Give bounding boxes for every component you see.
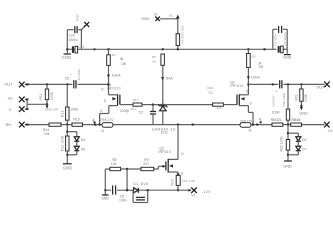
transistor Q2 IRF610 <box>230 79 252 105</box>
right OUT line <box>247 83 278 85</box>
svg-text:R12 100K: R12 100K <box>60 135 64 151</box>
svg-text:1000u: 1000u <box>68 38 78 42</box>
svg-text:3k: 3k <box>152 59 156 63</box>
svg-text:B: B <box>259 118 262 122</box>
resistor R1 3k 1W (left) <box>107 48 127 66</box>
svg-text:OUT: OUT <box>4 83 13 87</box>
svg-text:GND_HR: GND_HR <box>45 108 59 112</box>
svg-text:R10: R10 <box>171 179 175 185</box>
svg-text:V1: V1 <box>154 13 158 17</box>
svg-text:1W: 1W <box>258 65 264 69</box>
svg-text:IRF610: IRF610 <box>107 87 120 91</box>
connector GD <box>8 97 29 103</box>
resistor R4 0R27 5W <box>176 19 184 51</box>
capacitor C5 output coupling (left) <box>65 68 110 88</box>
resistor R19 221 (right) <box>271 118 283 126</box>
svg-text:R15: R15 <box>73 117 79 121</box>
svg-text:+50V: +50V <box>140 17 149 21</box>
svg-text:R22 100K: R22 100K <box>280 136 284 152</box>
wire gate bias node <box>142 103 213 105</box>
top-right decoupling block loop <box>273 29 287 53</box>
capacitor C6 100n <box>113 185 127 202</box>
svg-text:221: 221 <box>217 106 222 110</box>
resistor R21 100K (right, out to gnd) <box>294 83 308 115</box>
resistor R2 3k 1W (right) <box>247 48 266 69</box>
diode D6 <box>288 133 306 142</box>
svg-text:100K: 100K <box>50 91 54 100</box>
svg-text:R4 0R27 5W: R4 0R27 5W <box>180 26 184 44</box>
svg-text:221: 221 <box>131 107 136 111</box>
svg-text:R17: R17 <box>133 98 139 102</box>
resistor R20 100K (right feedback) <box>272 83 290 124</box>
svg-text:R20 100K: R20 100K <box>282 92 286 107</box>
svg-text:R18 10k: R18 10k <box>291 118 300 122</box>
svg-text:100K: 100K <box>272 110 281 114</box>
diode D5 <box>67 141 85 155</box>
svg-text:OUT: OUT <box>316 86 325 90</box>
net arrow GND_HR <box>45 105 59 111</box>
svg-text:B1: B1 <box>169 14 173 18</box>
JFET J1 2SK170 (box style) <box>100 118 114 133</box>
connector RH <box>6 122 29 128</box>
diode D4 <box>67 132 85 142</box>
zener D2 LM4040-10 <box>152 65 176 134</box>
svg-text:120-148: 120-148 <box>182 179 196 183</box>
svg-text:1W: 1W <box>121 62 127 66</box>
svg-text:IRF610: IRF610 <box>158 150 171 154</box>
svg-text:2200p: 2200p <box>120 109 130 113</box>
connector G <box>9 106 29 112</box>
resistor R9 221 <box>141 158 154 171</box>
svg-text:R3: R3 <box>152 55 156 59</box>
capacitor C7 output coupling (right) <box>272 80 325 107</box>
ground (top-left block) <box>61 48 71 60</box>
resistor R11 100K (left, out to gnd) <box>39 84 54 105</box>
svg-text:GND: GND <box>299 111 308 115</box>
main +50V rail <box>67 48 272 50</box>
current arrow 5mA <box>161 77 173 81</box>
transistor Q3 IRF610 (bottom current sink) <box>158 123 184 175</box>
svg-text:GND: GND <box>63 166 73 171</box>
connector LH <box>324 122 333 133</box>
svg-text:C11: C11 <box>78 45 84 49</box>
svg-text:100K: 100K <box>304 93 308 102</box>
wire Q1 source jog down to node A <box>100 106 109 125</box>
connector V2 12V <box>188 188 211 198</box>
svg-text:C3: C3 <box>139 110 143 114</box>
svg-text:R19 221: R19 221 <box>271 118 282 122</box>
junction dot mid bus <box>191 123 193 125</box>
svg-text:2SK170: 2SK170 <box>100 118 114 122</box>
svg-text:4u7/63V: 4u7/63V <box>77 68 81 80</box>
svg-text:C9 1000u: C9 1000u <box>283 32 287 46</box>
svg-text:C10: C10 <box>69 34 75 38</box>
capacitor C3 bypass <box>120 105 156 125</box>
test point connector (X with arrow, top-left block) <box>76 14 90 30</box>
svg-text:J2: J2 <box>248 128 252 132</box>
ground (left bias) <box>63 164 73 171</box>
resistor R14 10k <box>43 123 61 136</box>
resistor R15 221 <box>66 117 82 126</box>
svg-text:R21: R21 <box>294 94 298 100</box>
resistor R13 100K (left feedback) <box>61 84 79 124</box>
ground (top-right block) <box>283 55 292 60</box>
left bias network: R12 100K <box>60 125 69 164</box>
capacitor C8 film (top of right loop) <box>273 26 281 46</box>
svg-text:221: 221 <box>143 162 149 166</box>
svg-text:G: G <box>9 108 12 112</box>
ground (right bias) <box>283 161 292 169</box>
node A <box>92 118 101 126</box>
wire Q3 gate <box>154 165 166 169</box>
capacitor C11 electrolytic (bottom of loop) <box>72 45 84 53</box>
resistor R16 221 (right gate stopper) <box>208 86 224 110</box>
transistor Q1 IRF610 <box>101 78 133 106</box>
current arrow 10mA (left) <box>107 65 121 78</box>
wire R5 left leg <box>105 169 110 190</box>
resistor R3 3k (middle) <box>152 48 165 65</box>
zener D1 6V8 <box>133 182 149 193</box>
right bias network: R22 100K <box>280 125 290 161</box>
svg-text:GND: GND <box>101 196 109 200</box>
svg-text:IRF610: IRF610 <box>230 84 243 88</box>
svg-text:D: D <box>100 109 103 113</box>
svg-text:R11: R11 <box>39 94 43 100</box>
svg-text:D: D <box>181 152 184 156</box>
svg-text:GND: GND <box>61 55 71 60</box>
svg-text:TP50: TP50 <box>76 14 80 22</box>
svg-text:GND: GND <box>283 56 292 60</box>
capacitor C9 electrolytic (bottom of right loop) <box>278 32 287 53</box>
svg-text:R2: R2 <box>252 54 256 58</box>
svg-text:10mA: 10mA <box>251 76 261 80</box>
resistor R5 10k <box>110 158 141 171</box>
wire to Q2 gate <box>223 104 237 106</box>
svg-text:S: S <box>249 102 252 106</box>
svg-text:4u7/63V: 4u7/63V <box>272 95 276 107</box>
svg-text:10k: 10k <box>44 132 50 136</box>
svg-text:+: + <box>275 89 277 93</box>
resistor R18 10k (right) <box>287 118 302 126</box>
connector OUT (right) <box>316 82 329 90</box>
net arrow at +50V corner node <box>169 14 180 19</box>
JFET J2 2SK170 (box style) <box>240 119 253 132</box>
svg-text:221: 221 <box>208 90 213 94</box>
node B <box>252 118 262 126</box>
svg-text:S: S <box>104 99 107 103</box>
resistor R17 221 (left gate stopper) <box>131 98 142 111</box>
svg-text:GND: GND <box>283 165 292 169</box>
svg-text:C8 100n: C8 100n <box>273 34 277 46</box>
diode D7 <box>288 141 306 155</box>
wire GD/G to R11 bottom <box>27 99 47 109</box>
svg-text:-12V: -12V <box>202 190 211 194</box>
svg-text:3k: 3k <box>120 57 124 61</box>
svg-text:10mA: 10mA <box>112 74 122 78</box>
svg-text:C5: C5 <box>65 77 69 81</box>
capacitor C2 (parallel with D1) <box>133 190 148 202</box>
svg-text:LH: LH <box>328 129 333 133</box>
+50V input connector V1 <box>140 13 177 22</box>
svg-text:R1: R1 <box>112 53 116 57</box>
resistor R10 source resistor <box>171 172 196 191</box>
svg-text:100K: 100K <box>70 107 79 111</box>
svg-text:+: + <box>70 72 72 76</box>
svg-text:(D2): (D2) <box>161 131 168 135</box>
bottom supply wire <box>105 189 191 191</box>
wire R5/R9 junction down <box>126 169 128 191</box>
capacitor C10 film (top of loop) <box>68 26 78 42</box>
svg-text:D1 6V8: D1 6V8 <box>133 182 148 186</box>
svg-text:S: S <box>181 171 184 175</box>
svg-text:2SK170: 2SK170 <box>240 119 253 123</box>
svg-text:RH: RH <box>6 123 12 127</box>
wire Q2 source jog down to node B <box>248 106 253 125</box>
svg-text:D7: D7 <box>302 147 306 151</box>
top-left decoupling block loop <box>67 30 81 54</box>
current arrow 10mA (right) <box>247 68 261 80</box>
svg-text:D6: D6 <box>302 138 306 142</box>
svg-text:D5: D5 <box>81 147 85 151</box>
svg-text:R13: R13 <box>61 111 65 117</box>
left OUT line <box>4 82 72 88</box>
svg-text:10k: 10k <box>111 162 117 166</box>
svg-text:J1: J1 <box>101 129 105 133</box>
svg-text:GD: GD <box>8 97 14 101</box>
svg-text:D: D <box>101 88 104 92</box>
svg-text:D4: D4 <box>81 138 85 142</box>
svg-text:100n: 100n <box>119 199 127 203</box>
svg-text:5mA: 5mA <box>166 77 174 81</box>
input bus line (RH ... LH) <box>25 124 325 126</box>
svg-text:V2: V2 <box>191 194 195 198</box>
ground (bottom left) <box>101 189 109 200</box>
